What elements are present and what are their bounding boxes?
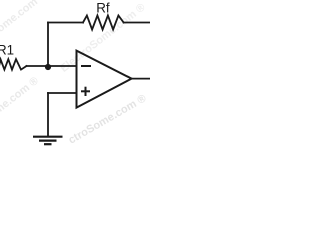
wire input node to op-amp inverting input [27, 65, 77, 67]
node junction dot [45, 64, 51, 70]
op-amp plus sign [81, 87, 90, 96]
svg-text:R1: R1 [0, 42, 14, 57]
wire output [132, 78, 152, 80]
wire op-amp non-inverting input [48, 92, 77, 94]
svg-text:ctroSome.com ®: ctroSome.com ® [67, 92, 149, 146]
resistor Rf [83, 16, 124, 30]
resistor R1 [0, 59, 27, 70]
op-amp U1 [77, 51, 132, 108]
ground [33, 137, 63, 145]
svg-text:Rf: Rf [96, 1, 110, 16]
wire top left to Rf [48, 22, 83, 24]
wire vertical feedback riser [47, 23, 49, 67]
wire Rf to right edge [124, 22, 151, 24]
wire ground riser [47, 93, 49, 136]
watermark [0, 0, 148, 148]
op-amp minus sign [81, 65, 91, 67]
